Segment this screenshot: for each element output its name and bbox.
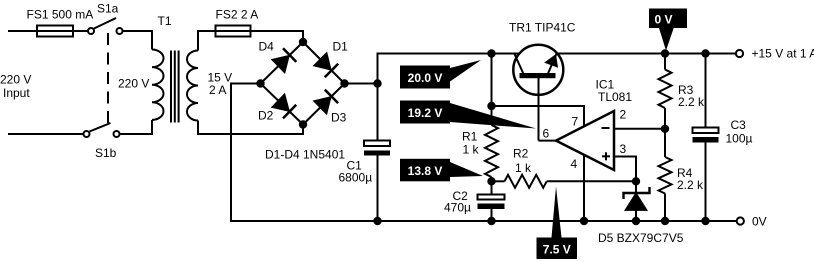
svg-text:2.2 k: 2.2 k	[678, 95, 705, 109]
svg-text:TR1 TIP41C: TR1 TIP41C	[509, 21, 576, 35]
node R1 rail tap	[488, 50, 494, 56]
svg-text:D1-D4 1N5401: D1-D4 1N5401	[265, 148, 345, 162]
wire op-amp pin 7 supply	[492, 106, 585, 126]
wire zener anode lead	[635, 210, 637, 221]
node C3 rail tap	[702, 50, 708, 56]
svg-text:D5 BZX79C7V5: D5 BZX79C7V5	[598, 231, 684, 245]
wire R2 left lead	[492, 180, 505, 182]
wire S1a to transformer	[123, 31, 153, 50]
resistor R4	[659, 157, 672, 194]
terminal 0V output	[737, 217, 744, 224]
svg-text:FS1 500 mA: FS1 500 mA	[27, 8, 94, 22]
svg-text:T1: T1	[158, 14, 172, 28]
switch S1b	[84, 123, 120, 137]
svg-text:2.2 k: 2.2 k	[677, 178, 704, 192]
wire op-amp output pin 6 to base	[539, 140, 557, 142]
node C3 ground	[702, 218, 708, 224]
node divider junction	[662, 126, 668, 132]
svg-text:6800µ: 6800µ	[339, 171, 373, 185]
wire bridge edge D3	[303, 84, 345, 125]
capacitor C1	[364, 141, 390, 156]
wire C1 upper lead	[377, 84, 379, 141]
wire R4 lower lead	[664, 194, 666, 222]
wire C2 upper lead	[491, 181, 493, 194]
node pin 4 ground	[581, 218, 587, 224]
svg-text:D2: D2	[258, 109, 274, 123]
op-amp U1 IC1 triangle	[556, 111, 614, 170]
node C1 ground	[374, 218, 380, 224]
diode D4	[273, 48, 297, 72]
node bridge top junction	[300, 39, 306, 45]
transformer T1 primary winding	[152, 50, 164, 120]
svg-text:D3: D3	[331, 111, 347, 125]
svg-text:R2: R2	[513, 147, 529, 161]
wire C3 lower lead	[705, 143, 707, 222]
svg-text:0 V: 0 V	[654, 12, 672, 26]
node R4 ground	[662, 218, 668, 224]
svg-text:19.2 V: 19.2 V	[408, 106, 443, 120]
svg-text:D4: D4	[259, 40, 275, 54]
callout 0 V ripple measurement	[649, 9, 687, 51]
node R1 R2 C2 junction	[488, 178, 494, 184]
svg-text:0V: 0V	[752, 215, 767, 229]
wire bridge positive to rail	[345, 54, 520, 84]
svg-text:100µ: 100µ	[726, 132, 753, 146]
svg-text:1 k: 1 k	[515, 161, 532, 175]
wire S1b to transformer	[120, 120, 153, 134]
node C2 ground	[488, 218, 494, 224]
capacitor C3	[693, 128, 719, 143]
wire bridge negative to 0V rail	[231, 84, 737, 222]
node bridge right junction	[341, 80, 347, 86]
diode D1	[315, 54, 339, 78]
wire R2 to pin3 node	[547, 180, 636, 182]
wire bridge edge D4	[261, 42, 304, 84]
svg-text:2 A: 2 A	[209, 83, 226, 97]
wire C1 lower lead	[377, 156, 379, 222]
callout 7.5 V measurement	[537, 187, 578, 260]
wire R1 upper lead	[491, 54, 493, 126]
transformer T1 secondary winding	[187, 51, 198, 121]
node zener ground	[633, 218, 639, 224]
svg-text:2: 2	[620, 108, 627, 122]
svg-text:S1b: S1b	[95, 146, 117, 160]
transistor TR1 collector lead	[515, 54, 524, 74]
svg-text:S1a: S1a	[97, 2, 119, 16]
resistor R3	[659, 70, 672, 109]
fuse FS1	[37, 26, 73, 37]
node pin3 R2 zener junction	[633, 178, 639, 184]
wire pin 3 to reference	[614, 157, 636, 182]
svg-text:4: 4	[571, 157, 578, 171]
svg-text:470µ: 470µ	[444, 201, 471, 215]
wire pin 2 to divider	[614, 128, 665, 130]
svg-text:C3: C3	[731, 118, 747, 132]
switch gang dashed link	[107, 33, 109, 124]
wire C3 upper lead	[705, 54, 707, 128]
callout 13.8 V measurement	[400, 159, 483, 182]
wire R4 upper lead	[664, 129, 666, 157]
diode D3	[315, 90, 339, 114]
capacitor C2	[478, 195, 505, 210]
op-amp plus sign	[602, 152, 610, 160]
transistor TR1 emitter lead	[548, 53, 557, 74]
resistor R2	[505, 175, 547, 188]
svg-text:220 V: 220 V	[0, 73, 31, 87]
transistor Q TR1 circle	[513, 45, 563, 95]
svg-text:1 k: 1 k	[463, 143, 480, 157]
svg-text:Input: Input	[3, 86, 30, 100]
node V+ supply tap on R1 lead	[488, 103, 494, 109]
svg-text:13.8 V: 13.8 V	[408, 164, 443, 178]
node R3 rail tap	[662, 50, 668, 56]
wire pin 4 to 0V	[583, 155, 585, 221]
node C1 tap	[374, 80, 380, 86]
svg-text:6: 6	[543, 127, 550, 141]
op-amp minus sign	[602, 127, 610, 129]
wire mains neutral bottom	[8, 133, 84, 135]
wire FS2 to bridge top	[251, 31, 304, 42]
svg-text:7: 7	[572, 115, 579, 129]
transformer T1 core	[171, 51, 179, 123]
svg-text:20.0 V: 20.0 V	[408, 71, 443, 85]
svg-text:7.5 V: 7.5 V	[543, 242, 571, 256]
svg-text:D1: D1	[333, 40, 349, 54]
wire bridge edge D1	[303, 42, 345, 84]
wire C2 lower lead	[491, 209, 493, 221]
diode D2	[273, 95, 297, 119]
wire R1 lower lead	[491, 177, 493, 181]
switch S1a	[88, 18, 123, 34]
wire emitter to +15V terminal	[557, 53, 736, 55]
wire bridge edge D2	[261, 84, 304, 125]
terminal +15V output	[736, 50, 743, 57]
resistor R1	[485, 125, 498, 177]
svg-text:3: 3	[620, 142, 627, 156]
wire R3 upper lead	[664, 54, 666, 70]
label 220 V Input	[0, 73, 31, 101]
wire base down to op-amp output	[538, 78, 540, 141]
wire zener cathode lead	[635, 181, 637, 193]
svg-text:TL081: TL081	[598, 90, 632, 104]
node bridge left junction	[257, 80, 263, 86]
svg-text:R1: R1	[462, 130, 478, 144]
wire R3 lower lead	[664, 108, 666, 129]
callout 19.2 V measurement	[400, 101, 536, 129]
transistor TR1 base bar	[520, 73, 556, 78]
svg-text:220 V: 220 V	[118, 77, 149, 91]
node bridge bottom junction	[300, 121, 306, 127]
wire secondary bottom to bridge bottom	[198, 121, 303, 135]
label 15 V 2 A	[208, 71, 233, 98]
zener diode D5	[624, 187, 650, 210]
svg-text:+15 V at 1 A: +15 V at 1 A	[752, 47, 814, 61]
transistor TR1 emitter arrow	[546, 56, 557, 66]
callout 20.0 V measurement	[400, 60, 481, 89]
svg-text:FS2 2 A: FS2 2 A	[216, 8, 259, 22]
wire mains live top	[8, 30, 88, 32]
wire secondary top to FS2	[198, 31, 216, 51]
fuse FS2	[216, 26, 251, 37]
